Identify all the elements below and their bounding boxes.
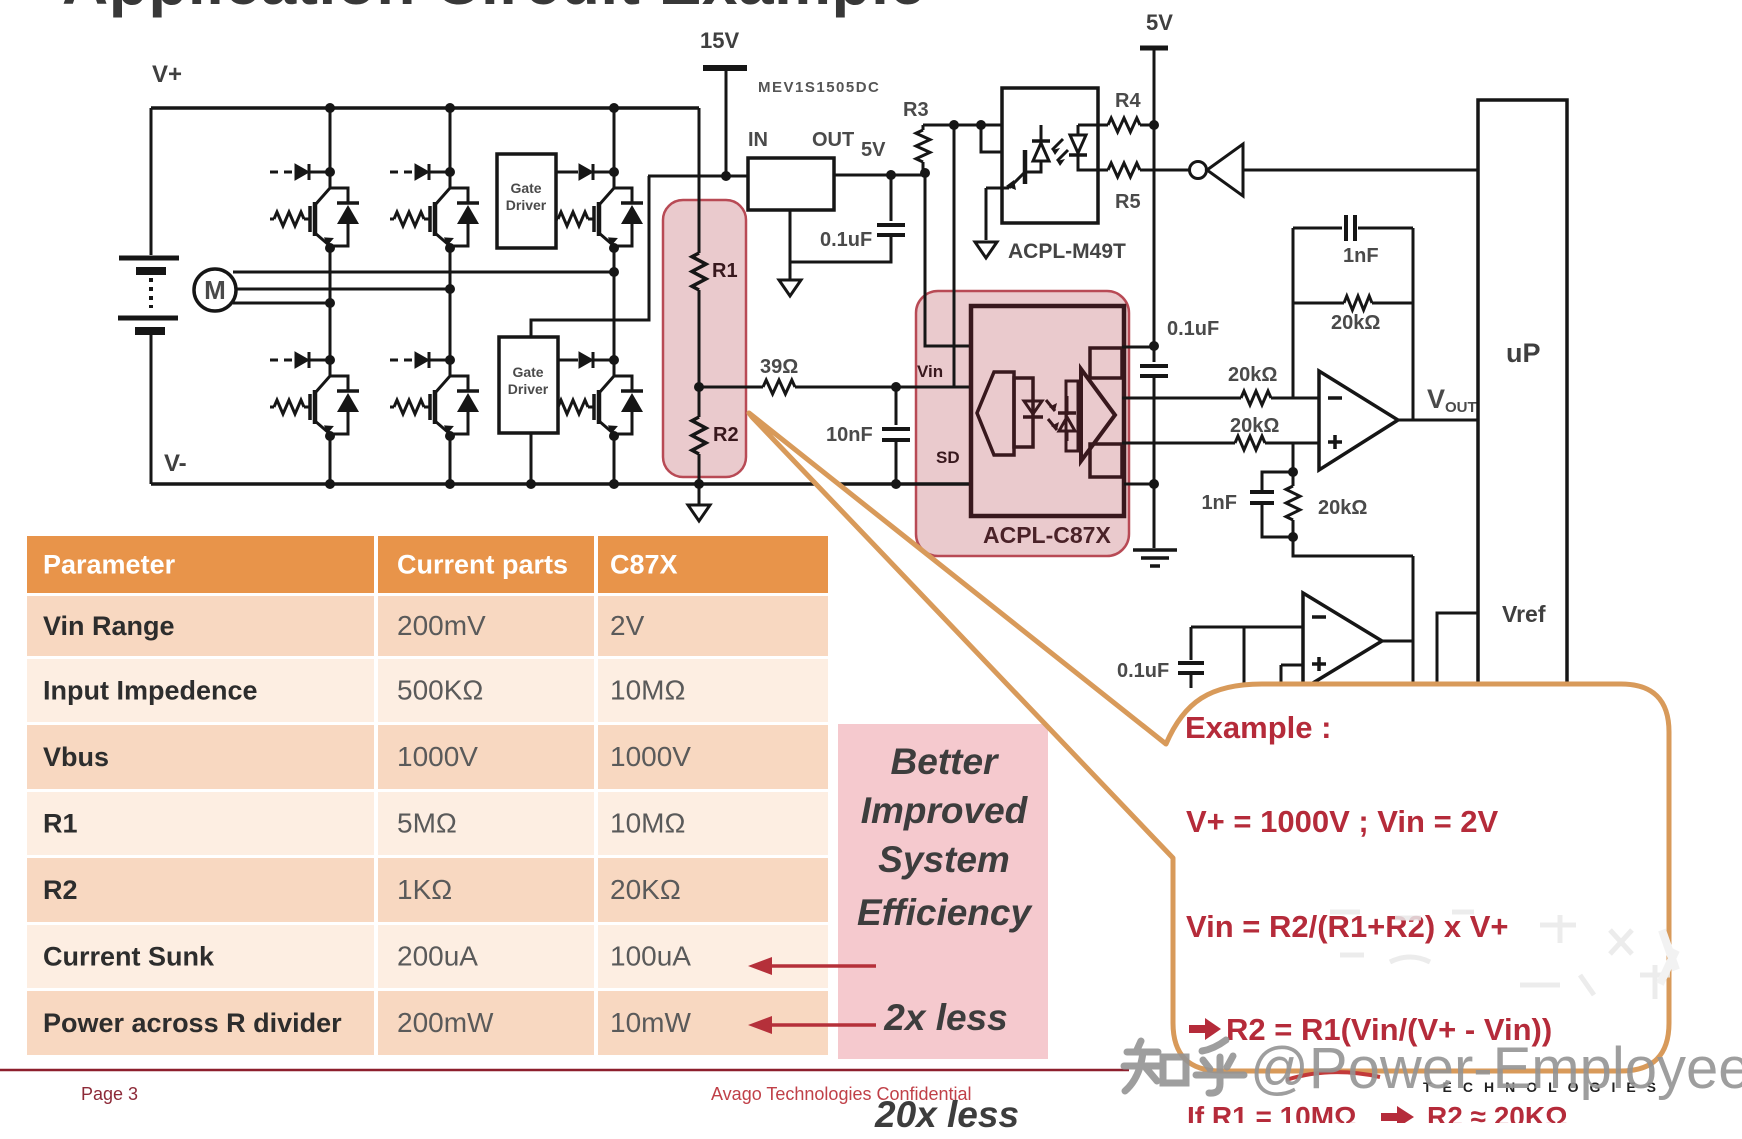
svg-text:Input Impedence: Input Impedence bbox=[43, 676, 258, 706]
wire bypass cap ground lead bbox=[790, 235, 891, 262]
op-amp U5 (Vref buffer) bbox=[1303, 593, 1382, 689]
svg-text:SD: SD bbox=[936, 448, 960, 467]
wire R4 left lead bbox=[1098, 124, 1108, 127]
svg-text:Vin: Vin bbox=[917, 362, 943, 381]
node Q5 emitter bbox=[445, 431, 455, 441]
svg-text:M: M bbox=[204, 275, 226, 305]
transistor Q1 (IGBT) bbox=[308, 206, 312, 232]
svg-text:5V: 5V bbox=[1146, 10, 1173, 35]
wire gate signal into Q5 bbox=[390, 359, 414, 362]
wire divider ground stub bbox=[698, 484, 701, 505]
node R3 bottom node bbox=[920, 168, 930, 178]
node leg2/V+ bbox=[445, 103, 455, 113]
diode freewheel of Q2 bbox=[450, 188, 468, 246]
svg-text:1KΩ: 1KΩ bbox=[397, 874, 452, 905]
svg-text:Gate: Gate bbox=[512, 364, 543, 380]
slide bottom crop mask bbox=[1148, 1123, 1742, 1139]
svg-text:V-: V- bbox=[164, 450, 187, 477]
wire to Vref buffer bbox=[1293, 537, 1413, 556]
wire DC-DC ground lead bbox=[789, 210, 792, 280]
node 10nF bottom / GND1 bbox=[891, 479, 901, 489]
svg-text:1nF: 1nF bbox=[1201, 492, 1237, 514]
resistor gate of Q6 bbox=[554, 406, 558, 409]
node VDD2 node bbox=[1149, 341, 1159, 351]
node leg3/V- bbox=[609, 479, 619, 489]
svg-text:System: System bbox=[878, 839, 1010, 880]
node leg2 phase bbox=[445, 284, 455, 294]
wire V- rail / GND1 / SD net bbox=[151, 482, 971, 486]
op-amp U4 (difference amplifier) bbox=[1319, 371, 1398, 470]
diode gate-drive D3 bbox=[579, 164, 593, 180]
node Q1 emitter bbox=[325, 243, 335, 253]
wire feedback left vertical bbox=[1292, 228, 1295, 398]
node Q6 emitter bbox=[609, 431, 619, 441]
DC-DC converter module MEV1S1505DC bbox=[748, 158, 834, 210]
Avago logo red swash bbox=[1286, 1072, 1380, 1080]
wire 20k vertical leads bbox=[1292, 472, 1295, 537]
svg-text:200mV: 200mV bbox=[397, 610, 486, 641]
wire R2 leads bbox=[698, 387, 701, 484]
node U2 gnd bbox=[526, 479, 536, 489]
svg-text:R3: R3 bbox=[903, 99, 929, 121]
svg-text:R2: R2 bbox=[43, 875, 78, 905]
sigma-delta modulator shape bbox=[977, 372, 1014, 455]
phototransistor inside M49T bbox=[1023, 150, 1028, 184]
transistor Q4 (IGBT) bbox=[308, 394, 312, 420]
resistor R5 bbox=[1108, 163, 1140, 177]
table row Vbus bbox=[27, 725, 374, 789]
node R3/Vin link node bbox=[949, 120, 959, 130]
svg-text:Vbus: Vbus bbox=[43, 742, 109, 772]
wire inverter input from uP bbox=[1243, 169, 1478, 172]
optocoupler ACPL-M49T bbox=[1002, 88, 1098, 223]
svg-text:Power across R divider: Power across R divider bbox=[43, 1008, 342, 1038]
svg-text:R4: R4 bbox=[1115, 90, 1141, 112]
resistor gate of Q5 bbox=[390, 406, 394, 409]
wire feedback resistor wire bbox=[1293, 302, 1413, 305]
svg-text:20KΩ: 20KΩ bbox=[610, 874, 681, 905]
wire Vout wire bbox=[1398, 419, 1478, 422]
svg-text:Page 3: Page 3 bbox=[81, 1084, 138, 1104]
svg-text:5MΩ: 5MΩ bbox=[397, 808, 457, 839]
capacitor C5 1nF bbox=[1250, 492, 1274, 503]
svg-text:1nF: 1nF bbox=[1343, 245, 1379, 267]
svg-text:C87X: C87X bbox=[610, 550, 678, 580]
transistor Q3 (IGBT) bbox=[592, 206, 596, 232]
highlight box Better Improved System Efficiency bbox=[838, 724, 1048, 1059]
node leg3/V+ bbox=[609, 103, 619, 113]
table row R1 bbox=[27, 792, 374, 855]
svg-text:20x less: 20x less bbox=[874, 1094, 1019, 1135]
resistor R4 bbox=[1108, 118, 1140, 132]
table row Current Sunk bbox=[27, 925, 374, 988]
wire feedback right vertical bbox=[1412, 228, 1415, 420]
wire link down to Vin node bbox=[953, 125, 956, 387]
node leg3 phase bbox=[609, 267, 619, 277]
ground divider ground bbox=[688, 505, 710, 521]
faint watermark remnants inside callout bbox=[1330, 912, 1670, 999]
node Q2 emitter bbox=[445, 243, 455, 253]
wire R5 to inverter bbox=[1140, 169, 1189, 172]
wire bypass cap top lead bbox=[890, 175, 893, 221]
node 15V/IN junction bbox=[721, 171, 731, 181]
svg-text:V+: V+ bbox=[152, 61, 182, 88]
wire M49T collector wire bbox=[923, 124, 1041, 127]
internal light arrows bbox=[1046, 400, 1057, 430]
resistor 20k (OUT+ series) bbox=[1241, 391, 1271, 405]
svg-text:0.1uF: 0.1uF bbox=[1117, 660, 1169, 682]
ground GND2 ground bbox=[1133, 550, 1177, 566]
wire gate signal into Q1 bbox=[270, 171, 294, 174]
svg-text:V+ = 1000V ; Vin = 2V: V+ = 1000V ; Vin = 2V bbox=[1186, 804, 1499, 839]
node Q2 collector bbox=[445, 167, 455, 177]
wire bridge leg 1 bbox=[329, 108, 332, 484]
svg-text:10mW: 10mW bbox=[610, 1007, 691, 1038]
svg-text:Current Sunk: Current Sunk bbox=[43, 942, 215, 972]
svg-text:R2: R2 bbox=[713, 424, 739, 446]
diode gate-drive D1 bbox=[295, 164, 309, 180]
microprocessor uP bbox=[1478, 100, 1567, 684]
wire cap top lead bbox=[1190, 627, 1193, 660]
node 10nF top bbox=[891, 382, 901, 392]
resistor 20k to Vref bbox=[1286, 486, 1300, 520]
node Q4 emitter bbox=[325, 431, 335, 441]
svg-text:R1: R1 bbox=[712, 260, 738, 282]
svg-text:Parameter: Parameter bbox=[43, 550, 176, 580]
wire OUT- wire bbox=[1122, 442, 1235, 445]
svg-text:20kΩ: 20kΩ bbox=[1331, 312, 1380, 334]
svg-text:Application Circuit Example: Application Circuit Example bbox=[62, 0, 925, 18]
wire buffer output bbox=[1382, 640, 1413, 643]
wire R1 to R2 bbox=[698, 290, 701, 387]
watermark zhihu glyphs bbox=[1124, 1040, 1244, 1093]
wire gate signal into Q4 bbox=[270, 359, 294, 362]
isolation amplifier ACPL-C87X highlight box bbox=[916, 291, 1129, 556]
node Q3 emitter bbox=[609, 243, 619, 253]
svg-text:MEV1S1505DC: MEV1S1505DC bbox=[758, 79, 880, 96]
table row Input Impedence bbox=[27, 659, 374, 722]
transistor Q2 (IGBT) bbox=[428, 206, 432, 232]
inverter gate U3 bbox=[1190, 162, 1207, 179]
wire 5V rail vertical bbox=[1153, 48, 1156, 362]
wire cap bottom lead bbox=[1190, 673, 1193, 688]
svg-text:200mW: 200mW bbox=[397, 1007, 494, 1038]
svg-text:100uA: 100uA bbox=[610, 941, 691, 972]
svg-text:5V: 5V bbox=[861, 139, 886, 161]
node Q3 collector bbox=[609, 167, 619, 177]
wire 15V to DC-DC IN bbox=[648, 175, 748, 178]
wire VDD2 cap to GND2 bbox=[1153, 376, 1156, 548]
diode gate-drive D2 bbox=[415, 164, 429, 180]
svg-text:0.1uF: 0.1uF bbox=[1167, 318, 1219, 340]
node leg1/V- bbox=[325, 479, 335, 489]
wire bridge leg 2 bbox=[449, 108, 452, 484]
diode gate-drive D5 bbox=[415, 352, 429, 368]
capacitor C3 0.1uF (VDD2) bbox=[1140, 366, 1168, 376]
svg-text:Efficiency: Efficiency bbox=[857, 892, 1034, 933]
node bypass tap bbox=[886, 170, 896, 180]
wire plus node down bbox=[1292, 443, 1295, 472]
svg-text:R5: R5 bbox=[1115, 191, 1141, 213]
svg-text:VOUT: VOUT bbox=[1427, 384, 1477, 416]
svg-text:Current parts: Current parts bbox=[397, 550, 568, 580]
motor M bbox=[194, 269, 236, 311]
diode gate-drive D6 bbox=[579, 352, 593, 368]
transistor Q6 (IGBT) bbox=[592, 394, 596, 420]
wire Vin wire into ACPL-C87X bbox=[795, 386, 971, 389]
svg-text:ACPL-M49T: ACPL-M49T bbox=[1008, 240, 1126, 263]
red arrow bullet 2 bbox=[1381, 1106, 1414, 1128]
svg-text:Improved: Improved bbox=[861, 790, 1029, 831]
wire 1nF branch bbox=[1262, 472, 1293, 537]
wire OUT+ wire bbox=[1122, 397, 1241, 400]
svg-text:10MΩ: 10MΩ bbox=[610, 675, 685, 706]
wire DC-DC 5V output wire bbox=[834, 174, 925, 177]
wire buffer fb down bbox=[1243, 627, 1246, 688]
diode freewheel of Q5 bbox=[450, 376, 468, 434]
resistor gate of Q1 bbox=[270, 218, 274, 221]
arrow current sunk comparison bbox=[770, 964, 876, 968]
capacitor C2 10nF bbox=[882, 429, 910, 440]
svg-text:Gate: Gate bbox=[510, 180, 541, 196]
svg-text:2V: 2V bbox=[610, 610, 645, 641]
node Q5 collector bbox=[445, 355, 455, 365]
capacitor C1 0.1uF (DC-DC out) bbox=[877, 225, 905, 235]
wire gate driver U2 ground lead bbox=[530, 433, 533, 484]
wire gate signal into Q6 bbox=[554, 359, 578, 362]
diode freewheel of Q3 bbox=[614, 188, 632, 246]
wire V+ rail bbox=[151, 106, 699, 110]
table row Parameter bbox=[27, 536, 374, 593]
svg-text:20kΩ: 20kΩ bbox=[1318, 497, 1367, 519]
wire gate signal into Q3 bbox=[554, 171, 578, 174]
svg-text:39Ω: 39Ω bbox=[760, 356, 798, 378]
wire V+ to R1 bbox=[698, 108, 701, 253]
ACPL-C87X inner outline bbox=[971, 306, 1124, 516]
svg-text:0.1uF: 0.1uF bbox=[820, 229, 872, 251]
wire feedback cap wire bbox=[1293, 227, 1413, 230]
transistor Q5 (IGBT) bbox=[428, 394, 432, 420]
wire Vref pin wire bbox=[1437, 613, 1478, 688]
wire photodiode to base bbox=[1027, 161, 1041, 172]
footer rule bbox=[0, 1069, 1129, 1072]
svg-text:ACPL-C87X: ACPL-C87X bbox=[983, 522, 1111, 548]
wire divider tap to Rfilter bbox=[699, 386, 763, 389]
wire LED anode bbox=[1078, 125, 1098, 135]
output amplifier triangle bbox=[1081, 369, 1115, 461]
wire motor phase wire to leg 3 bbox=[233, 271, 614, 274]
resistor R2 bbox=[692, 417, 706, 454]
highlight box around R1/R2 divider bbox=[663, 200, 746, 477]
node Q1 collector bbox=[325, 167, 335, 177]
wire bridge leg 3 bbox=[613, 108, 616, 484]
table row Power across R divider bbox=[27, 991, 374, 1055]
node leg1 phase bbox=[325, 298, 335, 308]
svg-text:1000V: 1000V bbox=[397, 741, 478, 772]
svg-text:Better: Better bbox=[891, 741, 1001, 782]
svg-text:200uA: 200uA bbox=[397, 941, 478, 972]
wire collector to photodiode bbox=[1040, 125, 1043, 141]
svg-text:15V: 15V bbox=[700, 28, 739, 53]
wire battery positive lead bbox=[150, 108, 153, 255]
node leg2/V- bbox=[445, 479, 455, 489]
wire motor phase wire to leg 1 bbox=[233, 302, 330, 305]
resistor gate of Q3 bbox=[554, 218, 558, 221]
diode freewheel of Q4 bbox=[330, 376, 348, 434]
resistor R3 bbox=[916, 130, 930, 162]
wire 15V feed bbox=[725, 68, 728, 176]
wire R4 to 5V bbox=[1140, 124, 1154, 127]
wire battery negative lead bbox=[150, 334, 153, 484]
wire R5 left lead bbox=[1098, 169, 1108, 172]
resistor 20k (OUT- series) bbox=[1235, 436, 1265, 450]
wire 5V to C87X VDD1 bbox=[925, 173, 971, 346]
ground DC-DC ground bbox=[779, 280, 801, 296]
wire LED cathode bbox=[1078, 155, 1098, 170]
wire Vref vertical bbox=[1412, 556, 1415, 688]
ground M49T emitter ground bbox=[975, 242, 997, 258]
svg-text:20kΩ: 20kΩ bbox=[1228, 364, 1277, 386]
resistor 39ohm bbox=[763, 380, 795, 394]
diode freewheel of Q6 bbox=[614, 376, 632, 434]
capacitor C6 0.1uF bbox=[1178, 663, 1204, 673]
svg-text:Vref: Vref bbox=[1502, 601, 1546, 627]
node R1/R2 divider tap bbox=[694, 382, 704, 392]
wire to op-amp inverting input bbox=[1271, 397, 1319, 400]
node GND2 node bbox=[1149, 479, 1159, 489]
svg-text:10nF: 10nF bbox=[826, 424, 873, 446]
svg-text:10MΩ: 10MΩ bbox=[610, 808, 685, 839]
table row R2 bbox=[27, 858, 374, 922]
internal LED (emit) bbox=[1032, 390, 1035, 436]
wire to op-amp non-inverting input bbox=[1265, 442, 1319, 445]
wire GND2 wire bbox=[1124, 483, 1154, 486]
svg-text:uP: uP bbox=[1506, 338, 1541, 368]
node RC top bbox=[1288, 467, 1298, 477]
svg-text:1000V: 1000V bbox=[610, 741, 691, 772]
gate driver U2 (low side) bbox=[499, 337, 558, 433]
wire gate driver U2 supply from 15V node bbox=[531, 176, 649, 337]
capacitor C4 1nF feedback bbox=[1346, 215, 1355, 241]
node R4/5V node bbox=[1149, 120, 1159, 130]
wire 10nF bottom lead bbox=[895, 440, 898, 484]
resistor 20k feedback bbox=[1344, 296, 1372, 310]
svg-text:OUT: OUT bbox=[812, 129, 854, 151]
diode freewheel of Q1 bbox=[330, 188, 348, 246]
svg-text:Vin Range: Vin Range bbox=[43, 611, 175, 641]
svg-text:@Power-Employee: @Power-Employee bbox=[1250, 1036, 1742, 1101]
node Q4 collector bbox=[325, 355, 335, 365]
node M49T base link node bbox=[976, 120, 986, 130]
svg-text:Driver: Driver bbox=[508, 381, 549, 397]
wire motor phase wire to leg 2 bbox=[235, 288, 450, 291]
wire R3 leads bbox=[922, 125, 925, 173]
arrow power comparison bbox=[770, 1023, 876, 1027]
battery B1 bbox=[118, 258, 179, 331]
wire 15V supply bar bbox=[703, 65, 747, 71]
diode gate-drive D4 bbox=[295, 352, 309, 368]
wire 10nF top lead bbox=[895, 387, 898, 425]
table row Vin Range bbox=[27, 596, 374, 656]
wire buffer inverting wire bbox=[1191, 626, 1303, 629]
red arrow bullet bbox=[1189, 1018, 1221, 1040]
wire gate signal into Q2 bbox=[390, 171, 414, 174]
gate driver U1 (high side) bbox=[497, 154, 556, 248]
node leg1/V+ bbox=[325, 103, 335, 113]
svg-text:IN: IN bbox=[748, 129, 768, 151]
wire 5V supply bar bbox=[1140, 46, 1168, 51]
internal photodiode (receive) bbox=[1066, 396, 1069, 441]
node R2 bottom / V- bbox=[694, 479, 704, 489]
wire buffer plus lead bbox=[1281, 665, 1303, 688]
svg-text:Driver: Driver bbox=[506, 197, 547, 213]
wire VDD2 wire bbox=[1122, 346, 1154, 349]
svg-text:Example :: Example : bbox=[1185, 710, 1331, 745]
light arrows M49T bbox=[1052, 139, 1068, 161]
svg-text:500KΩ: 500KΩ bbox=[397, 675, 483, 706]
node Q6 collector bbox=[609, 355, 619, 365]
svg-text:2x less: 2x less bbox=[883, 997, 1007, 1038]
callout bubble with pointer to R2 bbox=[749, 413, 1669, 1071]
resistor gate of Q2 bbox=[390, 218, 394, 221]
svg-text:R1: R1 bbox=[43, 809, 78, 839]
resistor gate of Q4 bbox=[270, 406, 274, 409]
node RC bottom bbox=[1288, 532, 1298, 542]
resistor R1 bbox=[692, 253, 706, 290]
wire link to phototransistor base bbox=[981, 125, 1024, 152]
